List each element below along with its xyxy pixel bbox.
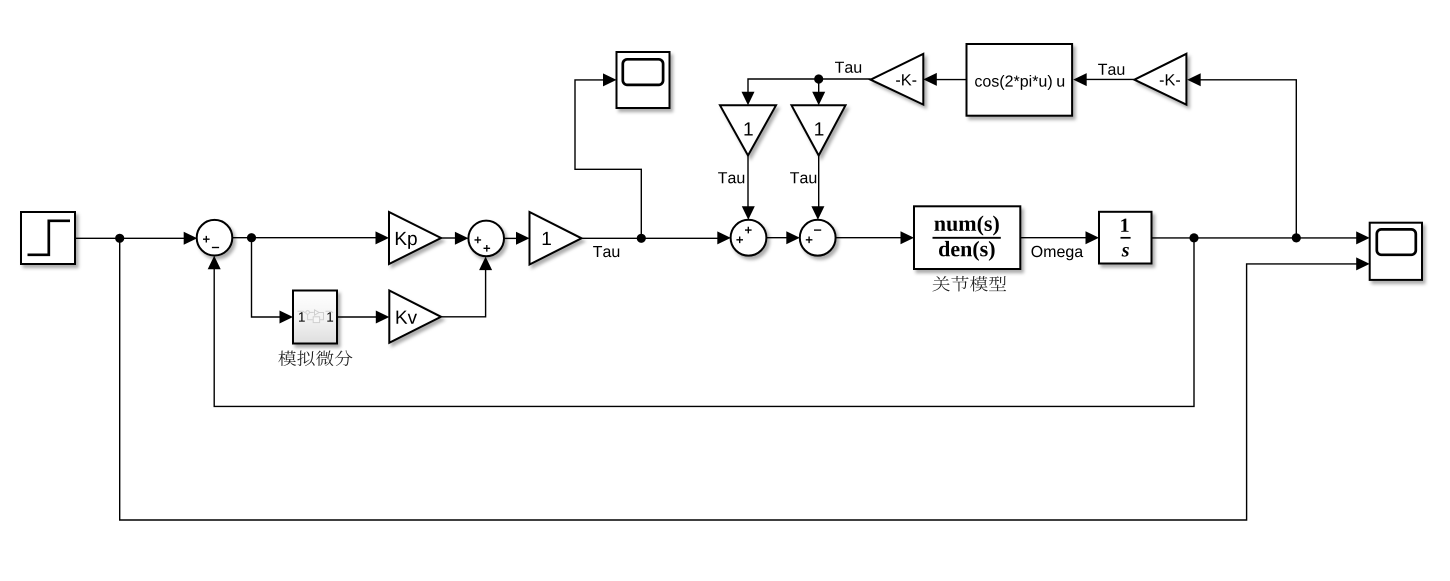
gain Kv — [389, 291, 441, 343]
label: Tau (under down gain A) — [718, 172, 744, 183]
wire: down-gain A output to Sum3 top, labeled Tau — [747, 156, 749, 209]
node: branch dot feeding down-gain B — [814, 74, 823, 83]
block: Scope1 (top) — [617, 52, 670, 108]
label: Tau (under down gain B) — [790, 172, 816, 183]
down gain A (value 1) — [720, 105, 776, 155]
block: Step source — [21, 212, 75, 264]
wire: negative feedback to Sum1 bottom input — [214, 238, 1194, 407]
summing junction Sum2 (+ +) — [468, 221, 504, 257]
wire: reference feedback to Scope2 lower input (long bottom path) — [120, 238, 1357, 520]
node: dot feeding negative feedback — [1189, 233, 1198, 242]
gain Kp — [389, 212, 441, 264]
wire: branch down to subsystem input — [252, 238, 282, 317]
wire: subsystem output to Kv gain — [337, 316, 377, 318]
node: branch dot after Sum1 — [247, 233, 256, 242]
wire: Sum1 output to Kp gain — [232, 237, 377, 239]
wire: Gain3 output to Sum3 — [582, 237, 719, 239]
wire: main feedback up to Gain -K- (right) — [1200, 80, 1297, 238]
wire: branch up to Scope1 input — [575, 80, 641, 238]
summing junction Sum1 (+ -) — [197, 220, 233, 256]
node: branch dot on step output — [115, 234, 124, 243]
wire: Kv output up to Sum2 bottom input — [441, 268, 486, 317]
wire: Gain -K- (right) output to Fcn block, labeled Tau — [1086, 78, 1134, 80]
wire: Kp output to Sum2 — [441, 237, 456, 239]
block: Transfer Fcn num(s)/den(s) 关节模型 — [914, 206, 1020, 269]
label: Tau (branch to down-gains) — [835, 62, 861, 73]
gain -K- (left, torque constant) — [871, 54, 924, 105]
label: Omega (transfer fcn output) — [1032, 246, 1084, 260]
label: Tau (after gain 1) — [593, 246, 619, 257]
wire: Sum2 output to Gain3 — [504, 237, 518, 239]
down gain B (value 1) — [792, 105, 846, 155]
block: subsystem 模拟微分 (analog derivative) — [293, 291, 337, 344]
node: dot feeding top feedback — [1292, 233, 1301, 242]
summing junction Sum4 (+ -) — [800, 220, 836, 256]
label: 关节模型 (transfer fcn name) — [932, 276, 1006, 292]
node: branch dot on Tau line — [637, 234, 646, 243]
wire: Sum3 output to Sum4 — [766, 237, 787, 239]
gain -K- (right) — [1134, 54, 1186, 105]
wire: Integrator output to Scope2 upper input — [1152, 237, 1358, 239]
wire: down-gain B output to Sum4 top, labeled Tau — [818, 156, 820, 209]
wire: Fcn block output to Gain -K- (left) — [936, 79, 967, 81]
block: Fcn cos(2*pi*u) — [967, 44, 1073, 116]
wire: Step output to Sum1 — [75, 237, 185, 239]
wire: Sum4 output to Transfer Fcn — [836, 237, 902, 239]
block: Integrator 1/s — [1099, 212, 1152, 264]
block: Scope2 (right) — [1370, 223, 1422, 280]
gain 1 (torque gain) — [530, 212, 582, 265]
summing junction Sum3 (+ +) — [731, 220, 767, 256]
wire: branch down into down-gain B — [818, 79, 820, 94]
wire: Gain -K- (left) output across and down into down-gain A — [748, 79, 871, 94]
label: Tau (into Fcn) — [1098, 64, 1124, 75]
wire: Transfer Fcn output to Integrator, labeled Omega — [1020, 237, 1087, 239]
label: 模拟微分 (subsystem name) — [278, 350, 352, 366]
